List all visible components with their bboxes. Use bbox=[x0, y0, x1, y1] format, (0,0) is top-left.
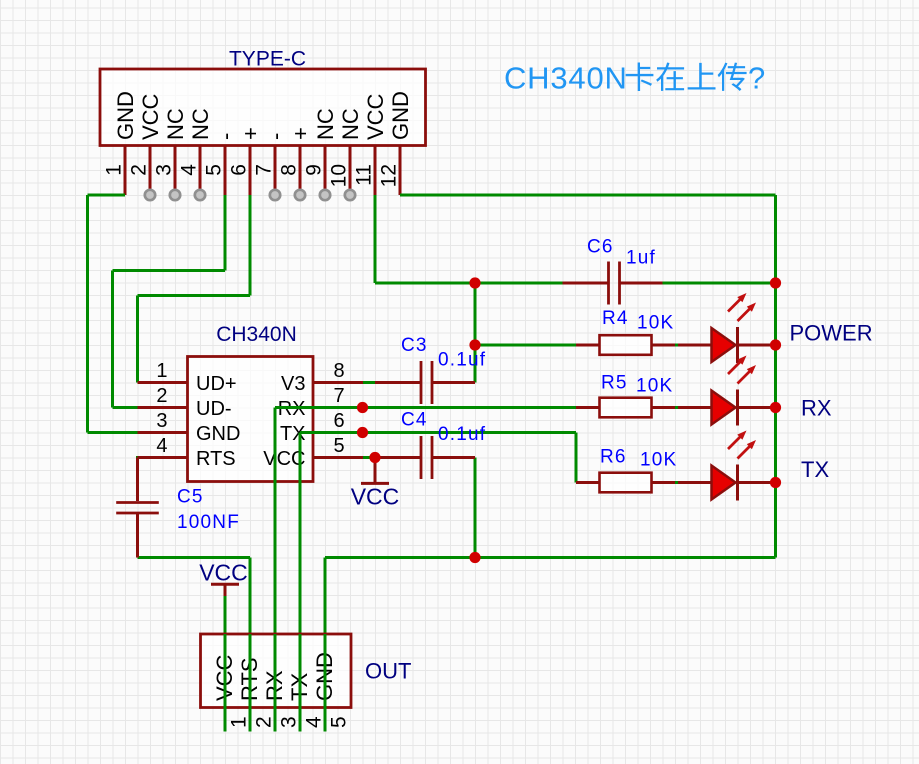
svg-text:10K: 10K bbox=[637, 313, 674, 334]
svg-text:POWER: POWER bbox=[790, 321, 873, 346]
svg-text:UD-: UD- bbox=[196, 398, 232, 420]
svg-text:R6: R6 bbox=[600, 447, 627, 468]
svg-text:C4: C4 bbox=[401, 410, 428, 431]
svg-text:OUT: OUT bbox=[365, 659, 411, 684]
svg-text:10K: 10K bbox=[640, 450, 677, 471]
svg-text:?: ? bbox=[748, 61, 765, 96]
svg-text:3: 3 bbox=[153, 164, 176, 176]
svg-text:5: 5 bbox=[328, 716, 351, 728]
svg-text:VCC: VCC bbox=[351, 484, 400, 510]
svg-text:10: 10 bbox=[328, 164, 351, 187]
svg-text:CH340N: CH340N bbox=[216, 323, 297, 346]
svg-text:6: 6 bbox=[228, 164, 251, 176]
svg-text:10K: 10K bbox=[636, 376, 673, 397]
svg-text:4: 4 bbox=[178, 164, 201, 176]
svg-text:VCC: VCC bbox=[138, 93, 163, 140]
svg-text:TX: TX bbox=[801, 457, 829, 482]
svg-text:8: 8 bbox=[334, 360, 345, 382]
svg-text:NC: NC bbox=[313, 108, 338, 140]
svg-text:GND: GND bbox=[388, 91, 413, 140]
svg-text:-: - bbox=[213, 133, 238, 140]
svg-text:4: 4 bbox=[156, 435, 167, 457]
svg-text:3: 3 bbox=[278, 716, 301, 728]
svg-text:NC: NC bbox=[338, 108, 363, 140]
svg-text:1uf: 1uf bbox=[626, 248, 656, 269]
svg-text:9: 9 bbox=[303, 164, 326, 176]
svg-text:V3: V3 bbox=[281, 373, 305, 395]
svg-text:1: 1 bbox=[103, 164, 126, 176]
svg-text:0.1uf: 0.1uf bbox=[438, 424, 486, 445]
svg-text:GND: GND bbox=[113, 91, 138, 140]
svg-text:C5: C5 bbox=[177, 487, 204, 508]
svg-text:7: 7 bbox=[253, 164, 276, 176]
svg-text:+: + bbox=[288, 127, 313, 140]
svg-text:12: 12 bbox=[378, 164, 401, 187]
svg-text:5: 5 bbox=[203, 164, 226, 176]
svg-text:5: 5 bbox=[334, 435, 345, 457]
svg-text:0.1uf: 0.1uf bbox=[438, 350, 486, 371]
svg-text:2: 2 bbox=[156, 385, 167, 407]
svg-text:R5: R5 bbox=[601, 373, 628, 394]
svg-text:TYPE-C: TYPE-C bbox=[229, 48, 306, 71]
svg-text:+: + bbox=[238, 127, 263, 140]
svg-text:VCC: VCC bbox=[363, 93, 388, 140]
svg-text:VCC: VCC bbox=[199, 560, 248, 586]
svg-text:GND: GND bbox=[196, 423, 240, 445]
svg-text:RTS: RTS bbox=[196, 448, 236, 470]
svg-text:RX: RX bbox=[801, 396, 832, 421]
svg-text:4: 4 bbox=[303, 716, 326, 728]
svg-text:3: 3 bbox=[156, 410, 167, 432]
svg-text:11: 11 bbox=[353, 164, 376, 186]
svg-text:2: 2 bbox=[253, 716, 276, 728]
svg-text:NC: NC bbox=[163, 108, 188, 140]
svg-text:UD+: UD+ bbox=[196, 373, 237, 395]
svg-text:C3: C3 bbox=[401, 335, 428, 356]
svg-text:8: 8 bbox=[278, 164, 301, 176]
svg-text:100NF: 100NF bbox=[177, 512, 240, 533]
svg-text:-: - bbox=[263, 133, 288, 140]
svg-text:C6: C6 bbox=[587, 237, 614, 258]
svg-text:6: 6 bbox=[334, 410, 345, 432]
svg-text:CH340N: CH340N bbox=[504, 61, 628, 96]
svg-text:7: 7 bbox=[334, 385, 345, 407]
svg-text:2: 2 bbox=[128, 164, 151, 176]
svg-text:1: 1 bbox=[228, 716, 251, 728]
svg-text:R4: R4 bbox=[602, 308, 629, 329]
svg-text:NC: NC bbox=[188, 108, 213, 140]
svg-text:1: 1 bbox=[156, 360, 167, 382]
